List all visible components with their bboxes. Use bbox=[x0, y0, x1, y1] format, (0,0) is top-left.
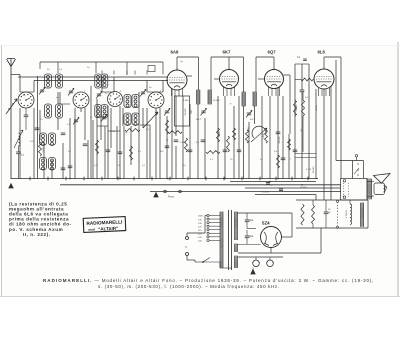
wire B+ lower rail bbox=[296, 227, 368, 229]
wire AVC bus lower bbox=[34, 80, 168, 82]
svg-text:50.000: 50.000 bbox=[185, 108, 187, 115]
resistor R18 bbox=[227, 136, 230, 152]
bus up-ticks bbox=[101, 71, 103, 75]
wire primary bottom bbox=[220, 267, 232, 269]
coil L12b bbox=[40, 158, 47, 170]
wire bbox=[101, 77, 103, 92]
coil L3c bbox=[95, 105, 102, 118]
wire lamp rail bbox=[238, 252, 321, 254]
wire bbox=[37, 76, 39, 179]
tube V1 6A8 bbox=[167, 70, 187, 90]
bus B- (heater rail) bbox=[60, 184, 341, 186]
wire bbox=[57, 118, 59, 130]
power transformer core bbox=[228, 210, 230, 270]
wire grid 6L6 top bbox=[323, 57, 325, 67]
wire dashed bbox=[337, 202, 339, 227]
small cap C22 bbox=[303, 58, 307, 60]
svg-text:5.000: 5.000 bbox=[219, 130, 221, 136]
wire bbox=[294, 64, 296, 179]
trimmer C3 bbox=[97, 93, 101, 95]
capacitor C31 bbox=[201, 139, 206, 141]
chassis bus (earth) bbox=[11, 178, 318, 180]
band switch wafer S1d bbox=[148, 92, 164, 108]
resistor R11 (screen) bbox=[294, 100, 297, 116]
wire bbox=[159, 108, 161, 179]
wire bbox=[110, 108, 112, 148]
svg-text:6L6: 6L6 bbox=[318, 50, 326, 55]
output transformer assembly bbox=[352, 161, 354, 179]
variable arrow S1d bbox=[143, 112, 158, 128]
wire bbox=[233, 106, 235, 179]
svg-text:8μF: 8μF bbox=[249, 235, 254, 238]
svg-text:25.000: 25.000 bbox=[300, 187, 307, 189]
wire bbox=[59, 92, 61, 104]
resistor R6 bbox=[288, 139, 291, 150]
capacitor C17 bbox=[223, 149, 228, 151]
svg-text:1.150 Ω: 1.150 Ω bbox=[346, 210, 348, 218]
resistor R13 bbox=[302, 100, 305, 116]
coil L8 bbox=[124, 113, 131, 125]
svg-text:8.000: 8.000 bbox=[306, 169, 312, 171]
coil L4 bbox=[45, 104, 52, 118]
wire bbox=[166, 116, 168, 179]
tube V2 6K7 bbox=[220, 70, 239, 89]
svg-text:5.000: 5.000 bbox=[180, 142, 186, 144]
wire bbox=[175, 96, 177, 136]
wire bbox=[335, 60, 337, 161]
tube V3 6Q7 bbox=[265, 70, 284, 89]
wire bbox=[315, 195, 317, 201]
resistor R15 bbox=[168, 131, 182, 134]
wire bbox=[87, 140, 89, 179]
wire bbox=[204, 118, 206, 179]
rubber stamp RADIOMARELLI mod ALTAIR bbox=[83, 217, 126, 233]
svg-text:50.000: 50.000 bbox=[279, 136, 281, 143]
wire bbox=[282, 96, 284, 179]
speaker box dots bbox=[343, 183, 345, 197]
tube pin leads bbox=[268, 87, 270, 96]
wire bbox=[74, 108, 76, 179]
svg-text:6Q7: 6Q7 bbox=[268, 50, 277, 55]
pilot lamp LP2 bbox=[267, 260, 274, 267]
power transformer T3 secondary HT bbox=[234, 212, 236, 240]
capacitor C19 bbox=[188, 149, 193, 151]
tube V4 6L6 bbox=[314, 69, 334, 89]
coil L7 bbox=[132, 95, 139, 108]
svg-text:5Z4: 5Z4 bbox=[262, 221, 270, 226]
resistor R7 bbox=[277, 155, 280, 168]
speaker coupling hatch bbox=[366, 179, 368, 199]
wire bbox=[146, 108, 148, 179]
ground (antenna lead) bbox=[9, 184, 13, 189]
wire plate 6A8 to IF1 bbox=[176, 57, 178, 68]
wire bbox=[33, 81, 35, 93]
wire speaker feed bbox=[367, 181, 374, 183]
wire bbox=[116, 126, 118, 179]
wire jog bbox=[97, 125, 108, 127]
antenna bbox=[7, 58, 16, 67]
capacitor C11 bbox=[118, 151, 123, 153]
wire bbox=[254, 106, 256, 124]
svg-text:+: + bbox=[271, 183, 273, 187]
electrolytic C25 bbox=[324, 211, 329, 213]
wire bbox=[182, 96, 184, 179]
wire stub bbox=[162, 62, 164, 75]
svg-text:180 Ω: 180 Ω bbox=[316, 105, 318, 111]
wire bbox=[57, 92, 59, 104]
svg-text:3.000: 3.000 bbox=[43, 146, 45, 152]
svg-text:0,5 MΩ: 0,5 MΩ bbox=[289, 140, 291, 147]
power transformer T3 primary taps bbox=[207, 214, 209, 216]
wire stub bbox=[95, 62, 97, 73]
wire bbox=[122, 108, 124, 126]
wire cathode 6L6 bbox=[315, 89, 317, 179]
svg-text:2 MΩ: 2 MΩ bbox=[248, 127, 250, 133]
resistor R3b bbox=[130, 146, 133, 160]
wire bbox=[69, 118, 71, 179]
field coil L13 bbox=[350, 204, 352, 224]
capacitor C9b bbox=[61, 167, 66, 169]
wire bbox=[171, 89, 173, 179]
wire stub bbox=[39, 62, 41, 69]
svg-text:mod: mod bbox=[88, 227, 95, 231]
trimmer C6b bbox=[74, 119, 78, 121]
wire bbox=[238, 96, 240, 179]
capacitor C30 bbox=[174, 139, 179, 141]
wire bbox=[51, 160, 53, 179]
wire HT top bbox=[237, 212, 292, 214]
bus bias bbox=[150, 191, 341, 193]
trimmer C1 bbox=[40, 89, 44, 91]
trimmer C2 bbox=[69, 90, 73, 92]
IF transformer T1 secondary bbox=[207, 90, 209, 104]
IF transformer T2 secondary bbox=[252, 92, 254, 106]
svg-text:50.000: 50.000 bbox=[213, 100, 220, 102]
coil L3d bbox=[101, 105, 108, 118]
coil L2 bbox=[56, 74, 63, 88]
wire bbox=[62, 143, 64, 179]
svg-text:Fono: Fono bbox=[168, 195, 174, 199]
wire bbox=[80, 108, 82, 112]
wire bbox=[224, 96, 226, 179]
bus junction stubs bbox=[29, 177, 31, 181]
capacitor C12 bbox=[165, 145, 170, 147]
capacitor C28 bbox=[266, 182, 270, 184]
resistor R12 (grid 6L6) bbox=[301, 78, 313, 81]
wire bbox=[100, 108, 102, 140]
ground below lamp bbox=[252, 268, 254, 270]
oscillator shield box bbox=[175, 96, 190, 126]
wire bbox=[123, 126, 125, 179]
capacitor C12b bbox=[83, 143, 88, 145]
resistor R5 bbox=[265, 130, 268, 143]
trimmer C5 bbox=[102, 116, 106, 118]
wire bbox=[138, 92, 140, 179]
wire screen 6L6 bbox=[308, 64, 310, 179]
wire plate lead 6L6 bbox=[323, 90, 325, 201]
switch S2 and Fono jack bbox=[164, 190, 167, 193]
wire bbox=[217, 96, 219, 179]
wire bbox=[269, 96, 271, 179]
resistor R2 bbox=[96, 140, 99, 154]
wire bbox=[104, 126, 106, 179]
svg-text:25.000: 25.000 bbox=[296, 104, 298, 111]
wire bbox=[277, 88, 279, 179]
wire filament 5V bbox=[237, 244, 261, 246]
wire bbox=[295, 63, 309, 65]
wire bbox=[243, 106, 245, 179]
svg-text:1 MΩ: 1 MΩ bbox=[263, 133, 265, 139]
speaker voice coil bbox=[374, 183, 385, 195]
capacitor C21 (tone) bbox=[300, 89, 305, 91]
wire top tie bbox=[40, 61, 163, 63]
svg-text:s. (30-50), m. (200-530), l. (: s. (30-50), m. (200-530), l. (1000-2000)… bbox=[98, 284, 280, 289]
wire bbox=[175, 146, 177, 179]
wire AVC bus upper bbox=[18, 76, 168, 78]
coil L6 bbox=[124, 95, 131, 108]
bus heater 2 bbox=[245, 187, 341, 189]
resistor R1 bbox=[39, 142, 42, 156]
wave trap L15 bbox=[6, 99, 17, 114]
tube pin leads bbox=[171, 88, 173, 96]
wire bus junctions bbox=[167, 178, 169, 180]
capacitor C8 bbox=[61, 132, 66, 134]
wire bbox=[197, 104, 199, 179]
wire antenna to coil bbox=[11, 74, 20, 76]
wire bbox=[155, 108, 157, 179]
wire bbox=[119, 106, 121, 179]
resistor R19 bbox=[125, 129, 140, 132]
output transformer T4 winding bbox=[360, 203, 362, 227]
wire side lead 6K7 bbox=[214, 78, 220, 80]
wire bbox=[261, 96, 263, 179]
resistor R3 bbox=[166, 120, 169, 134]
svg-text:“ALTAIR”: “ALTAIR” bbox=[98, 226, 119, 232]
svg-text:~: ~ bbox=[185, 245, 188, 250]
wire jog right bbox=[295, 153, 317, 155]
wire bbox=[39, 110, 41, 140]
capacitor C24 (8uF) bbox=[245, 235, 250, 237]
svg-text:160V: 160V bbox=[198, 216, 204, 218]
wire stub bbox=[126, 62, 128, 75]
IF transformer T2 primary bbox=[241, 92, 243, 106]
capacitor C18 bbox=[237, 149, 242, 151]
mains plug bbox=[186, 237, 189, 240]
capacitor C9 bbox=[68, 165, 73, 167]
wire plate 6K7 to IF2 bbox=[243, 57, 245, 92]
wire bbox=[288, 134, 290, 179]
capacitor C7 bbox=[35, 127, 40, 129]
coil L1 bbox=[45, 74, 52, 88]
svg-text:5.000: 5.000 bbox=[110, 131, 116, 133]
capacitor C32 bbox=[24, 114, 29, 116]
rectifier tube V5 5Z4 bbox=[261, 227, 282, 248]
tube pin leads bbox=[223, 87, 225, 96]
wire grid cap 6Q7 bbox=[273, 57, 275, 68]
wire bbox=[19, 108, 21, 179]
wire bbox=[320, 228, 322, 253]
speaker cone bbox=[374, 174, 391, 184]
wire cap bottom rail bbox=[247, 228, 256, 230]
IF transformer T1 primary bbox=[196, 90, 198, 104]
speaker box (dashed) bbox=[341, 179, 368, 201]
wire bbox=[142, 108, 144, 128]
svg-text:10.000: 10.000 bbox=[313, 166, 315, 173]
coil L10 (padder) bbox=[40, 133, 47, 145]
coil L12 bbox=[49, 158, 56, 170]
wire B+ rail bbox=[296, 199, 368, 201]
filter resistor R14 bbox=[301, 204, 304, 225]
resistor R10 bbox=[206, 151, 220, 154]
speaker terminals bbox=[343, 180, 346, 183]
trimmer C6 bbox=[165, 110, 169, 112]
bus B+ feed bbox=[255, 194, 316, 196]
variable coil L14 bbox=[19, 133, 21, 146]
wire bbox=[130, 126, 132, 165]
power transformer T3 secondary 6.3V bbox=[234, 256, 236, 268]
svg-text:8μF: 8μF bbox=[249, 219, 254, 222]
wire bbox=[19, 75, 21, 93]
band switch wafer S1a bbox=[18, 92, 34, 108]
svg-text:osc: osc bbox=[56, 97, 59, 99]
capacitor C27 bbox=[16, 151, 21, 153]
wire bbox=[189, 104, 191, 179]
svg-text:300 Ω: 300 Ω bbox=[97, 143, 99, 149]
coil L11 bbox=[49, 133, 56, 145]
coil L3b bbox=[101, 74, 108, 88]
capacitor C16 bbox=[281, 157, 286, 159]
coil L5 bbox=[56, 104, 63, 118]
wire bbox=[96, 99, 98, 179]
svg-text:RADIOMARELLI. — Modelli Altair: RADIOMARELLI. — Modelli Altair e Altair … bbox=[43, 278, 374, 283]
trimmer C14 bbox=[247, 112, 251, 114]
wire stub bbox=[57, 62, 59, 73]
resistor R4 bbox=[246, 130, 249, 143]
trimmer C13 bbox=[201, 110, 205, 112]
wire bbox=[43, 142, 45, 179]
capacitor C20 bbox=[293, 149, 298, 151]
tube pin leads bbox=[318, 88, 320, 96]
svg-text:II, n. 222).: II, n. 222). bbox=[23, 232, 51, 237]
wire bbox=[146, 81, 148, 93]
capacitor C23 (8uF) bbox=[245, 219, 250, 221]
power transformer T3 secondary 5V bbox=[234, 244, 236, 252]
wire side lead 6Q7 bbox=[258, 78, 265, 80]
wire bbox=[90, 86, 92, 179]
wire bbox=[248, 122, 250, 179]
svg-text:50.000: 50.000 bbox=[262, 192, 269, 194]
wire plate 6Q7 bbox=[284, 74, 291, 76]
wire bbox=[84, 108, 86, 140]
svg-text:M.F.2: M.F.2 bbox=[250, 119, 256, 121]
resistor R9 (cathode 6K7) bbox=[233, 128, 236, 140]
svg-text:1.500: 1.500 bbox=[183, 100, 189, 102]
wire bbox=[33, 108, 35, 179]
capacitor C10 bbox=[106, 149, 111, 151]
coil L3 bbox=[95, 74, 102, 88]
svg-text:6K7: 6K7 bbox=[223, 50, 231, 55]
mains switch S3 bbox=[203, 258, 210, 263]
wire grid cap 6K7 bbox=[228, 57, 230, 68]
wire side lead 6A8 bbox=[187, 75, 192, 77]
resistor R17 bbox=[185, 138, 188, 152]
wire bbox=[92, 120, 94, 179]
wire bbox=[149, 125, 151, 179]
resistor R8 bbox=[217, 128, 220, 142]
capacitor C15 bbox=[276, 131, 281, 133]
power transformer tap leads bbox=[209, 215, 220, 217]
wire bbox=[113, 77, 115, 92]
power transformer T3 primary winding bbox=[219, 212, 221, 268]
capacitor C29 bbox=[279, 188, 283, 190]
small component box bbox=[148, 66, 155, 72]
wire bbox=[162, 81, 164, 93]
trimmer C4 bbox=[141, 91, 145, 93]
wire bbox=[330, 86, 332, 200]
svg-text:6A8: 6A8 bbox=[171, 50, 179, 55]
svg-text:M.F.1: M.F.1 bbox=[196, 119, 202, 121]
resistor R16 bbox=[312, 205, 315, 224]
coil L9 bbox=[132, 113, 139, 125]
wire rect cathode bbox=[270, 248, 272, 254]
band switch wafer S1b bbox=[73, 92, 89, 108]
pilot lamp LP1 bbox=[253, 260, 260, 267]
band switch wafer S1c bbox=[108, 92, 123, 107]
volume potentiometer P1 bbox=[252, 126, 266, 138]
wire bbox=[107, 106, 109, 179]
bus AVC return bbox=[230, 181, 316, 183]
